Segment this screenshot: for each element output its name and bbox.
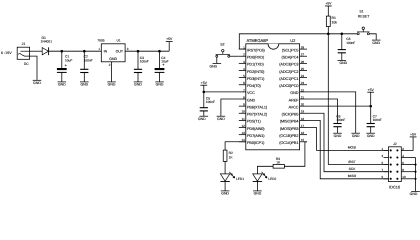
- wire C7 bottom to ground: [370, 127, 372, 133]
- U2 pin 3 PD1(TXD) stub: [239, 60, 265, 67]
- LED LED2: [253, 172, 277, 182]
- U2 pin 4 PD2(INT0) stub: [239, 67, 265, 74]
- svg-text:3: 3: [127, 47, 129, 51]
- svg-text:10: 10: [241, 110, 245, 114]
- svg-text:AVCC: AVCC: [289, 105, 299, 109]
- wire S2 to ground: [216, 57, 218, 63]
- wire S2 to U2 pin 2: [230, 55, 239, 57]
- junction J2 ground net pin 8: [414, 178, 416, 180]
- svg-text:VCC: VCC: [247, 91, 255, 95]
- svg-text:GND: GND: [33, 81, 41, 85]
- junction VCC node at C5: [203, 91, 206, 94]
- svg-text:1N4001: 1N4001: [41, 40, 53, 44]
- +5V supply (U2 VCC): [200, 81, 207, 85]
- ground (C8): [338, 61, 348, 66]
- wire U1 GND pin to ground: [111, 62, 113, 82]
- svg-text:GND: GND: [410, 192, 418, 196]
- svg-text:LED2: LED2: [268, 177, 276, 181]
- svg-text:GND: GND: [367, 134, 375, 138]
- svg-text:GND: GND: [217, 117, 225, 121]
- wire /RST net: pin1 up and across top of U2: [239, 34, 358, 49]
- svg-text:U2: U2: [290, 38, 296, 43]
- J2 pin 5: [382, 161, 392, 166]
- wire +5V to U2 VCC pin 7: [204, 91, 239, 93]
- U2 pin 25 (ADC2)PC2 stub: [279, 67, 307, 74]
- svg-text:19: 19: [301, 110, 305, 114]
- wire J2 even pins to ground: [415, 158, 417, 192]
- capacitor C2 100nF: [80, 55, 92, 73]
- svg-text:MOSI: MOSI: [348, 146, 357, 150]
- U2 pin 7 VCC stub: [239, 88, 255, 95]
- resistor R3 1K: [273, 157, 284, 168]
- svg-text:PB6(XTAL1): PB6(XTAL1): [247, 105, 268, 109]
- svg-text:27: 27: [301, 53, 305, 57]
- svg-text:22: 22: [301, 88, 305, 92]
- diode D1 1N4001: [41, 36, 53, 55]
- capacitor C1 10uF (polarized): [57, 54, 72, 72]
- +5V supply (J2): [410, 133, 417, 137]
- J2 pin 10: [396, 175, 415, 180]
- svg-text:(ADC3)PC3: (ADC3)PC3: [279, 63, 298, 67]
- svg-text:GND: GND: [58, 83, 66, 87]
- capacitor C3 100nF: [134, 56, 149, 73]
- wire +5V riser above C5: [203, 85, 205, 92]
- voltage regulator U1 7805: [97, 39, 125, 62]
- svg-text:4: 4: [243, 67, 245, 71]
- wire +5V to J2 pin 2: [405, 137, 414, 151]
- wire C5 bottom to ground: [203, 111, 205, 116]
- +5V supply (regulator output): [166, 37, 173, 41]
- capacitor C5 100nF: [200, 96, 215, 111]
- capacitor C4 10uF (polarized): [155, 56, 169, 73]
- ground (C5): [198, 116, 208, 121]
- +5V supply (R1 pull-up): [325, 2, 332, 6]
- svg-text:PD1(TXD): PD1(TXD): [247, 63, 265, 67]
- wire +5V riser above AVCC node: [370, 92, 372, 106]
- svg-text:(ADC1)PC1: (ADC1)PC1: [279, 77, 298, 81]
- U2 pin 23 (ADC0)PC0 stub: [279, 81, 307, 88]
- wire R1 bottom to /RST line and down to ISP: [327, 27, 329, 165]
- svg-text:13: 13: [241, 131, 245, 135]
- svg-text:GND: GND: [209, 64, 217, 68]
- svg-text:J1: J1: [22, 42, 26, 46]
- wire U2 pin 21 AREF to C6: [307, 99, 338, 123]
- wire C1 bottom to ground: [61, 72, 63, 81]
- svg-text:7: 7: [243, 88, 245, 92]
- svg-text:/RST: /RST: [348, 160, 356, 164]
- svg-text:(SCK)PB5: (SCK)PB5: [282, 113, 299, 117]
- svg-text:/RST(PC6): /RST(PC6): [247, 48, 265, 52]
- ground (S2): [209, 64, 221, 69]
- U2 pin 16 (OC1B)PB2 stub: [279, 131, 307, 138]
- U2 pin 19 (SCK)PB5 stub: [282, 110, 307, 117]
- svg-text:18: 18: [301, 117, 305, 121]
- svg-text:28: 28: [301, 46, 305, 50]
- svg-text:MISO: MISO: [348, 174, 357, 178]
- wire C2 top: [83, 51, 85, 69]
- svg-text:SCK: SCK: [349, 167, 357, 171]
- svg-text:23: 23: [301, 81, 305, 85]
- wire U1 OUT to +5V node: [125, 50, 169, 52]
- wire MOSI net: U2 pin 17 to J2 pin 1: [307, 128, 389, 151]
- junction /RST net at C8: [341, 33, 344, 36]
- wire U2 pin 15 to R3: [305, 141, 307, 143]
- ground (U2 pin 22): [351, 133, 360, 138]
- wire C7 top: [370, 106, 372, 123]
- svg-text:15: 15: [301, 138, 305, 142]
- svg-text:12: 12: [241, 124, 245, 128]
- wire U2 pin 20 AVCC to +5V node: [307, 105, 371, 107]
- wire C4 bottom to ground: [159, 72, 161, 81]
- svg-text:20: 20: [301, 103, 305, 107]
- U2 pin 24 (ADC1)PC1 stub: [279, 74, 307, 81]
- ground (C3): [134, 82, 143, 87]
- svg-text:100nF: 100nF: [336, 118, 345, 122]
- svg-text:S1: S1: [359, 10, 363, 14]
- svg-text:GND: GND: [80, 83, 88, 87]
- svg-text:9: 9: [243, 103, 245, 107]
- wire D1 cathode to U1 IN (node VIN): [49, 50, 102, 52]
- wire C4 top: [159, 51, 161, 69]
- svg-text:PD7(AIN1): PD7(AIN1): [247, 134, 265, 138]
- svg-text:GND: GND: [134, 83, 142, 87]
- svg-text:IDC10: IDC10: [389, 185, 401, 190]
- svg-text:100nF: 100nF: [140, 60, 149, 64]
- capacitor C8 100nF: [338, 37, 356, 53]
- svg-text:5: 5: [243, 74, 245, 78]
- svg-text:PD2(INT0): PD2(INT0): [247, 70, 265, 74]
- microcontroller U2 ATMEGA8P: [246, 38, 300, 150]
- svg-text:10k: 10k: [332, 20, 338, 24]
- wire LED2 cathode to ground: [256, 182, 258, 191]
- U2 pin 17 (MOSI)PB3 stub: [280, 124, 307, 131]
- wire U2 pin 14 to R2: [225, 142, 246, 150]
- U2 pin 27 (SDA)PC4 stub: [281, 53, 307, 60]
- svg-text:S2: S2: [220, 42, 224, 46]
- svg-text:100nF: 100nF: [206, 100, 215, 104]
- junction node +5V at C4: [158, 50, 161, 53]
- svg-text:PD3(INT1): PD3(INT1): [247, 77, 265, 81]
- U2 pin 15 (OC1A)PB1 stub: [279, 138, 307, 145]
- svg-text:(SDA)PC4: (SDA)PC4: [281, 56, 298, 60]
- svg-text:PD5(T1): PD5(T1): [247, 120, 261, 124]
- svg-text:6 -15V: 6 -15V: [1, 51, 12, 55]
- U2 pin 13 PD7(AIN1) stub: [239, 131, 265, 138]
- U2 pin 18 (MISO)PB4 stub: [280, 117, 307, 124]
- wire J1 to D1 anode: [30, 50, 43, 52]
- connector J1 DC jack: [17, 42, 29, 66]
- svg-text:PD0(RXD): PD0(RXD): [247, 56, 265, 60]
- wire C3 bottom to ground: [137, 73, 139, 82]
- capacitor C6 100nF: [333, 114, 345, 126]
- wire C6 bottom to ground: [337, 127, 339, 133]
- svg-text:GND: GND: [108, 83, 116, 87]
- svg-text:+5V: +5V: [166, 37, 173, 41]
- wire U2 GND pin 8 to ground: [221, 99, 239, 116]
- U2 pin 20 AVCC stub: [289, 103, 307, 110]
- wire MISO net: U2 pin 18 to J2 pin 9: [307, 120, 389, 178]
- svg-text:GND: GND: [247, 98, 255, 102]
- U2 pin 2 PD0(RXD) stub: [239, 53, 265, 60]
- svg-text:17: 17: [301, 124, 305, 128]
- junction /RST net at R1: [327, 33, 330, 36]
- ground (U2 pin 8): [217, 116, 226, 121]
- ground (U1): [107, 82, 116, 87]
- svg-text:AREF: AREF: [289, 98, 300, 102]
- svg-text:GND: GND: [156, 83, 164, 87]
- J2 pin 3: [382, 154, 392, 159]
- svg-text:OUT: OUT: [116, 49, 124, 53]
- wire +5V riser after C4: [168, 42, 170, 52]
- U2 pin 8 GND stub: [239, 95, 256, 102]
- svg-text:11: 11: [242, 117, 245, 121]
- wire SCK net: U2 pin 19 to J2 pin 7: [307, 113, 389, 171]
- svg-text:+5V: +5V: [201, 81, 208, 85]
- svg-text:(OC1B)PB2: (OC1B)PB2: [279, 134, 298, 138]
- svg-text:PB0(ICP1): PB0(ICP1): [247, 141, 265, 145]
- U2 pin 6 PD4(T0) stub: [239, 81, 262, 88]
- wire J1 pin2 to ground: [30, 56, 38, 80]
- switch S2 (pushbutton): [216, 49, 230, 57]
- svg-text:8: 8: [243, 95, 245, 99]
- U2 pin 1 /RST(PC6) stub: [239, 46, 266, 53]
- svg-text:GND: GND: [339, 61, 347, 65]
- junction J2 ground net pin 4: [414, 164, 416, 166]
- svg-text:(MISO)PB4: (MISO)PB4: [280, 120, 299, 124]
- svg-text:GND: GND: [352, 134, 360, 138]
- svg-text:16: 16: [301, 131, 305, 135]
- svg-text:2: 2: [109, 63, 111, 67]
- svg-text:1: 1: [98, 47, 100, 51]
- svg-text:PD4(T0): PD4(T0): [247, 84, 261, 88]
- svg-text:GND: GND: [221, 192, 229, 196]
- ground (LED2): [253, 191, 262, 196]
- svg-text:GND: GND: [372, 41, 380, 45]
- resistor R2 1K: [223, 150, 233, 161]
- ground (J2): [410, 191, 420, 196]
- ground (C2): [80, 82, 89, 87]
- svg-text:R1: R1: [332, 16, 336, 20]
- wire /RST net to J2 pin 5: [328, 164, 388, 166]
- J2 pin 1: [382, 147, 392, 152]
- wire R3 to LED2: [257, 166, 273, 174]
- svg-text:GND: GND: [198, 117, 206, 121]
- svg-text:24: 24: [301, 74, 305, 78]
- U2 pin 10 PB7(XTAL2) stub: [239, 110, 268, 117]
- wire R2 to LED1: [224, 161, 226, 174]
- J2 pin 6: [396, 161, 415, 166]
- junction node +5V at C3: [137, 50, 140, 53]
- wire C2 bottom to ground: [83, 73, 85, 82]
- wire C3 top: [137, 51, 139, 69]
- U2 pin 21 AREF stub: [289, 95, 307, 102]
- resistor R1 10k: [326, 6, 337, 27]
- svg-text:PD6(AIN0): PD6(AIN0): [247, 127, 265, 131]
- svg-text:+5V: +5V: [325, 2, 332, 6]
- wire C5 top: [203, 92, 205, 108]
- ground (J1): [33, 80, 42, 85]
- junction AVCC node: [369, 105, 372, 108]
- connector J2 IDC10 ISP header: [389, 142, 402, 189]
- svg-text:100nF: 100nF: [346, 41, 355, 45]
- wire S1 to ground: [369, 34, 376, 40]
- U2 pin 11 PD5(T1) stub: [239, 117, 262, 124]
- svg-text:(SCL)PC5: (SCL)PC5: [282, 48, 299, 52]
- svg-text:DC: DC: [24, 62, 29, 66]
- svg-text:7805: 7805: [97, 39, 105, 43]
- svg-text:GND: GND: [290, 91, 298, 95]
- svg-text:GND: GND: [109, 57, 117, 61]
- svg-text:26: 26: [301, 60, 305, 64]
- U2 pin 26 (ADC3)PC3 stub: [279, 60, 307, 67]
- J2 pin 9: [382, 175, 392, 180]
- svg-text:IN: IN: [104, 49, 108, 53]
- J2 pin 4: [396, 154, 415, 159]
- ground (C1): [58, 82, 67, 87]
- svg-text:2: 2: [243, 53, 245, 57]
- junction J2 ground net pin 6: [414, 171, 416, 173]
- junction node VIN at C1: [61, 50, 64, 53]
- svg-text:21: 21: [301, 95, 305, 99]
- svg-text:3: 3: [243, 60, 245, 64]
- svg-text:(ADC0)PC0: (ADC0)PC0: [279, 84, 298, 88]
- ground (C7): [366, 133, 375, 138]
- U2 pin 22 GND stub: [290, 88, 307, 95]
- U2 pin 5 PD3(INT1) stub: [239, 74, 265, 81]
- svg-text:LED1: LED1: [236, 177, 244, 181]
- svg-text:GND: GND: [334, 134, 342, 138]
- J2 pin 7: [382, 168, 392, 173]
- wire C8 bottom to ground: [341, 53, 343, 60]
- wire C1 top: [61, 51, 63, 69]
- svg-text:25: 25: [301, 67, 305, 71]
- svg-text:(OC1A)PB1: (OC1A)PB1: [279, 141, 298, 145]
- svg-text:U1: U1: [117, 39, 121, 43]
- svg-text:(MOSI)PB3: (MOSI)PB3: [280, 127, 299, 131]
- svg-text:6: 6: [243, 81, 245, 85]
- +5V supply (AVCC): [367, 88, 374, 92]
- svg-text:10: 10: [402, 175, 406, 179]
- svg-text:J2: J2: [393, 142, 397, 146]
- capacitor C7 100nF: [367, 114, 382, 126]
- switch S1 (pushbutton): [357, 27, 370, 35]
- svg-text:+5V: +5V: [410, 133, 417, 137]
- svg-text:PB7(XTAL2): PB7(XTAL2): [247, 113, 268, 117]
- ground (S1): [372, 40, 381, 45]
- svg-text:GND: GND: [254, 192, 262, 196]
- svg-text:ATMEGA8P: ATMEGA8P: [247, 38, 269, 43]
- wire C8 top: [341, 34, 343, 50]
- U2 pin 12 PD6(AIN0) stub: [239, 124, 265, 131]
- U2 pin 9 PB6(XTAL1) stub: [239, 103, 268, 110]
- ground (C6): [333, 133, 342, 138]
- ground (C4): [155, 82, 164, 87]
- svg-text:(ADC2)PC2: (ADC2)PC2: [279, 70, 298, 74]
- ground (LED1): [221, 191, 230, 196]
- J2 pin 2: [396, 147, 404, 152]
- wire U2 pin 22 GND to ground: [307, 92, 356, 133]
- U2 pin 28 (SCL)PC5 stub: [282, 46, 307, 53]
- svg-text:+5V: +5V: [368, 88, 375, 92]
- svg-text:100nF: 100nF: [84, 59, 93, 63]
- svg-text:100nF: 100nF: [373, 118, 382, 122]
- LED LED1: [220, 172, 244, 182]
- wire LED1 cathode to ground: [224, 182, 226, 191]
- svg-text:RESET: RESET: [358, 15, 371, 19]
- junction node VIN at C2: [83, 50, 86, 53]
- U2 pin 14 PB0(ICP1) stub: [239, 138, 265, 145]
- J2 pin 8: [396, 168, 415, 173]
